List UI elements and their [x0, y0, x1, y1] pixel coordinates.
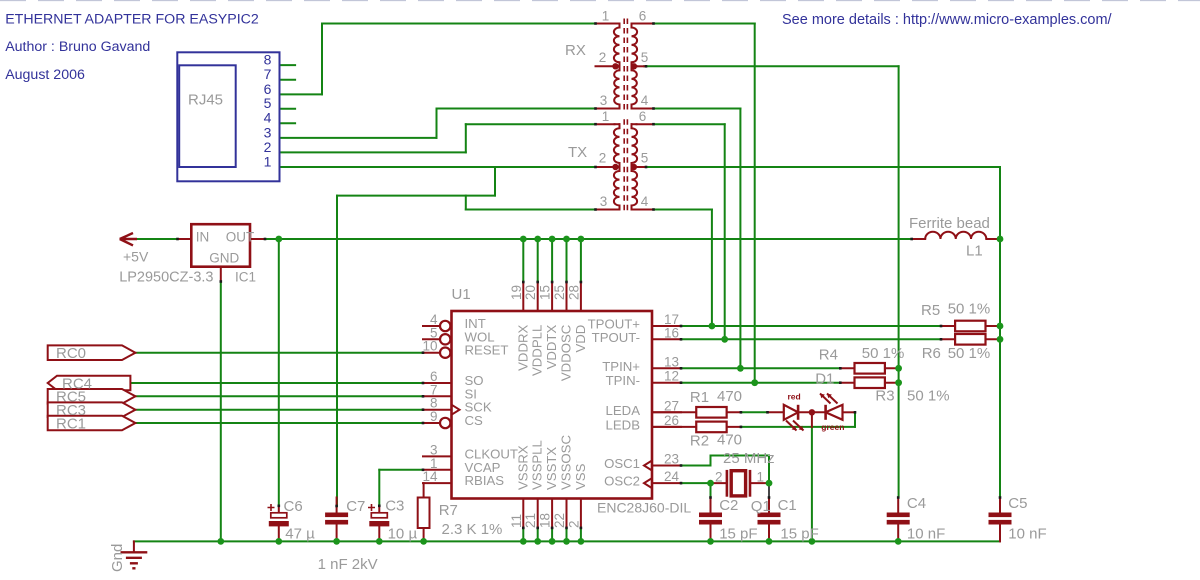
svg-text:R2: R2 — [690, 433, 709, 450]
svg-text:R1: R1 — [690, 389, 709, 406]
svg-text:11: 11 — [509, 514, 524, 528]
svg-text:1: 1 — [264, 153, 272, 169]
svg-text:Gnd: Gnd — [109, 544, 126, 572]
svg-text:25: 25 — [552, 285, 567, 300]
svg-text:25 MHz: 25 MHz — [723, 450, 775, 467]
svg-text:19: 19 — [509, 285, 524, 300]
svg-text:VSSPLL: VSSPLL — [530, 440, 545, 490]
svg-text:VDDOSC: VDDOSC — [559, 324, 574, 381]
svg-text:C3: C3 — [385, 497, 404, 514]
svg-text:2: 2 — [566, 520, 581, 528]
svg-text:RX: RX — [565, 42, 586, 59]
svg-text:C5: C5 — [1008, 495, 1027, 512]
svg-text:2: 2 — [599, 50, 607, 65]
svg-text:50 1%: 50 1% — [948, 345, 991, 362]
svg-text:D1: D1 — [815, 370, 834, 387]
svg-text:VDDPLL: VDDPLL — [530, 325, 545, 376]
svg-text:5: 5 — [641, 151, 649, 166]
svg-text:C7: C7 — [346, 498, 365, 515]
svg-text:RC0: RC0 — [56, 345, 86, 362]
svg-text:9: 9 — [430, 409, 438, 424]
svg-text:10: 10 — [422, 339, 437, 354]
svg-text:VSSTX: VSSTX — [544, 447, 559, 490]
svg-text:R4: R4 — [819, 347, 838, 364]
svg-text:GND: GND — [209, 251, 239, 266]
svg-text:7: 7 — [264, 66, 272, 82]
svg-text:3: 3 — [600, 93, 608, 108]
svg-text:12: 12 — [664, 369, 679, 384]
svg-text:R6: R6 — [922, 345, 941, 362]
svg-text:10 nF: 10 nF — [1008, 526, 1046, 543]
svg-text:VDDRX: VDDRX — [515, 325, 530, 371]
svg-text:VSSOSC: VSSOSC — [559, 435, 574, 490]
svg-text:VSS: VSS — [573, 463, 588, 490]
svg-text:2.3 K 1%: 2.3 K 1% — [442, 521, 503, 538]
svg-text:TPIN+: TPIN+ — [602, 359, 640, 374]
svg-text:RJ45: RJ45 — [188, 92, 223, 109]
svg-text:20: 20 — [523, 285, 538, 300]
svg-text:LP2950CZ-3.3: LP2950CZ-3.3 — [119, 270, 213, 286]
svg-text:18: 18 — [538, 513, 553, 528]
svg-text:OSC1: OSC1 — [604, 456, 640, 471]
svg-text:22: 22 — [552, 513, 567, 528]
svg-text:3: 3 — [600, 194, 608, 209]
svg-text:IC1: IC1 — [235, 270, 256, 285]
svg-text:28: 28 — [566, 285, 581, 300]
svg-text:15 pF: 15 pF — [719, 526, 757, 543]
svg-text:4: 4 — [264, 110, 272, 126]
svg-text:C4: C4 — [907, 495, 926, 512]
svg-text:10 µ: 10 µ — [388, 526, 418, 543]
svg-text:47 µ: 47 µ — [285, 526, 315, 543]
svg-text:VSSRX: VSSRX — [515, 445, 530, 490]
svg-text:13: 13 — [664, 354, 679, 369]
svg-text:6: 6 — [639, 9, 647, 24]
svg-text:4: 4 — [641, 93, 649, 108]
svg-text:RC1: RC1 — [56, 415, 86, 432]
svg-text:TPOUT-: TPOUT- — [592, 330, 640, 345]
svg-text:OSC2: OSC2 — [604, 474, 640, 489]
svg-text:2: 2 — [264, 139, 272, 155]
svg-text:5: 5 — [641, 50, 649, 65]
svg-text:C1: C1 — [778, 497, 797, 514]
svg-text:green: green — [821, 422, 844, 432]
svg-text:VDDTX: VDDTX — [544, 325, 559, 370]
svg-text:LEDA: LEDA — [606, 403, 641, 418]
svg-text:TPIN-: TPIN- — [606, 373, 640, 388]
svg-text:C6: C6 — [284, 498, 303, 515]
svg-text:27: 27 — [664, 398, 679, 413]
svg-text:2: 2 — [599, 151, 607, 166]
svg-text:15: 15 — [538, 285, 553, 300]
svg-text:RBIAS: RBIAS — [465, 473, 505, 488]
svg-text:14: 14 — [422, 469, 438, 484]
svg-text:Author : Bruno Gavand: Author : Bruno Gavand — [5, 39, 150, 55]
svg-text:See more details : http://www.: See more details : http://www.micro-exam… — [782, 12, 1113, 28]
svg-text:10 nF: 10 nF — [907, 526, 945, 543]
svg-text:23: 23 — [664, 452, 679, 467]
svg-text:Q1: Q1 — [751, 498, 771, 515]
svg-text:1: 1 — [757, 469, 765, 484]
svg-text:1: 1 — [602, 109, 610, 124]
svg-text:U1: U1 — [452, 286, 471, 303]
svg-text:August 2006: August 2006 — [5, 67, 85, 83]
svg-text:ENC28J60-DIL: ENC28J60-DIL — [597, 500, 691, 516]
svg-text:R3: R3 — [875, 388, 894, 405]
svg-text:red: red — [788, 391, 801, 401]
svg-text:6: 6 — [639, 109, 647, 124]
svg-text:1: 1 — [602, 9, 610, 24]
svg-text:C2: C2 — [719, 497, 738, 514]
svg-text:16: 16 — [664, 325, 679, 340]
svg-text:Ferrite bead: Ferrite bead — [909, 215, 990, 232]
svg-text:50 1%: 50 1% — [907, 388, 950, 405]
svg-text:IN: IN — [196, 230, 210, 245]
svg-text:21: 21 — [523, 513, 538, 528]
svg-text:15 pF: 15 pF — [780, 526, 818, 543]
svg-text:8: 8 — [264, 52, 272, 68]
svg-text:1 nF 2kV: 1 nF 2kV — [318, 556, 378, 573]
svg-text:R7: R7 — [439, 502, 458, 519]
svg-text:TX: TX — [568, 144, 587, 161]
svg-text:L1: L1 — [966, 243, 983, 260]
svg-text:50 1%: 50 1% — [862, 345, 905, 362]
svg-text:470: 470 — [717, 432, 742, 449]
svg-text:4: 4 — [641, 194, 649, 209]
svg-text:R5: R5 — [921, 302, 940, 319]
svg-text:470: 470 — [717, 388, 742, 405]
svg-text:VDD: VDD — [573, 325, 588, 353]
svg-text:ETHERNET ADAPTER FOR EASYPIC2: ETHERNET ADAPTER FOR EASYPIC2 — [5, 12, 259, 28]
svg-text:24: 24 — [664, 469, 680, 484]
svg-text:+5V: +5V — [123, 249, 149, 265]
svg-text:RESET: RESET — [465, 343, 509, 358]
svg-text:2: 2 — [715, 469, 723, 484]
svg-text:50 1%: 50 1% — [948, 301, 991, 318]
svg-text:CS: CS — [465, 413, 484, 428]
svg-text:26: 26 — [664, 413, 679, 428]
svg-text:OUT: OUT — [226, 230, 255, 245]
svg-text:LEDB: LEDB — [606, 417, 641, 432]
